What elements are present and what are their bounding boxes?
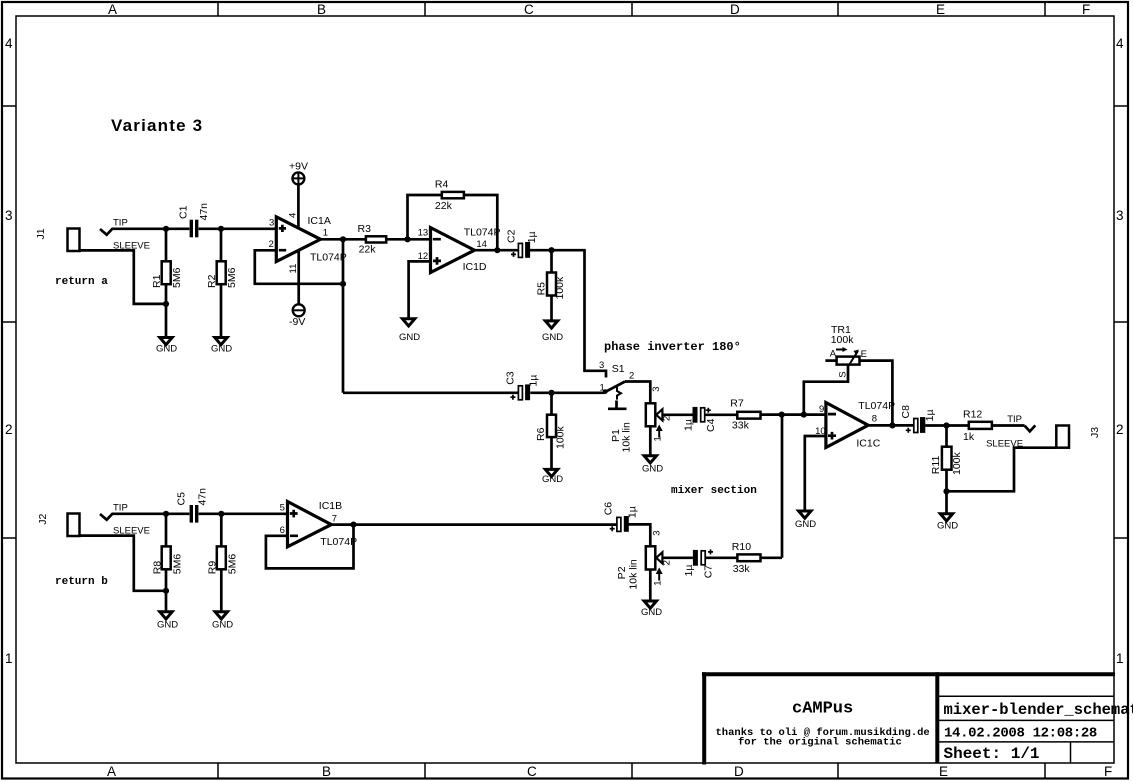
wire C3 to S1 pin1 <box>530 391 604 394</box>
junction sleeve R8 <box>163 588 169 594</box>
svg-text:A: A <box>107 764 116 779</box>
svg-text:33k: 33k <box>733 563 751 575</box>
title block text cAMPus <box>792 700 853 719</box>
svg-text:1: 1 <box>323 228 328 239</box>
svg-text:3: 3 <box>269 218 274 229</box>
svg-text:3: 3 <box>599 360 604 371</box>
svg-text:5M6: 5M6 <box>226 554 238 575</box>
svg-text:IC1A: IC1A <box>308 215 331 227</box>
svg-text:TIP: TIP <box>1007 414 1022 425</box>
op-amp IC1B <box>280 500 357 548</box>
connector J3 <box>986 414 1101 449</box>
wire R5 top <box>550 250 553 272</box>
svg-text:8: 8 <box>872 414 877 425</box>
note mixer section <box>671 485 757 497</box>
svg-text:7: 7 <box>332 513 337 524</box>
wire IC1D pin12 to gnd <box>409 261 431 318</box>
wire C5 to IC1B pin5 <box>199 512 288 515</box>
junction R11 sleeve <box>943 488 949 494</box>
wire P2 bottom to gnd <box>649 570 652 602</box>
title block sheet <box>944 745 1040 763</box>
title block credit line 2 <box>738 737 902 749</box>
svg-text:R12: R12 <box>963 409 982 421</box>
svg-text:GND: GND <box>212 620 233 631</box>
note return a <box>55 276 108 288</box>
svg-text:B: B <box>322 764 331 779</box>
junction sleeve R1 <box>163 301 169 307</box>
svg-text:mixer section: mixer section <box>671 485 757 497</box>
svg-text:100k: 100k <box>554 276 566 300</box>
svg-text:R5: R5 <box>535 282 547 296</box>
svg-text:R2: R2 <box>206 274 218 288</box>
svg-text:TL074P: TL074P <box>310 252 347 264</box>
svg-text:SLEEVE: SLEEVE <box>113 526 150 537</box>
svg-text:1µ: 1µ <box>924 409 936 421</box>
svg-text:E: E <box>936 2 945 17</box>
wire R7 to IC1C pin9 <box>761 413 826 416</box>
svg-text:TL074P: TL074P <box>320 536 357 548</box>
svg-text:GND: GND <box>937 521 958 532</box>
wire IC1B pin6 feedback <box>266 525 354 569</box>
capacitor C7 <box>683 549 715 578</box>
note return b <box>55 576 108 588</box>
switch S1 <box>599 360 634 409</box>
svg-text:IC1D: IC1D <box>463 261 487 273</box>
wire IC1C feedback to TR1 wiper <box>804 366 848 415</box>
junction J1 tip R1 <box>163 226 169 232</box>
svg-text:R3: R3 <box>358 223 372 235</box>
svg-text:C5: C5 <box>176 492 188 506</box>
ground P2 <box>641 601 662 618</box>
svg-text:14: 14 <box>476 239 487 250</box>
wire TR1 lead A stub <box>825 359 836 362</box>
supply +9V <box>289 161 308 185</box>
svg-text:C2: C2 <box>505 229 517 243</box>
svg-text:22k: 22k <box>359 244 377 256</box>
svg-text:C3: C3 <box>504 371 516 385</box>
op-amp IC1A <box>269 213 347 274</box>
svg-text:GND: GND <box>542 332 563 343</box>
svg-text:R10: R10 <box>732 541 751 553</box>
svg-text:TIP: TIP <box>113 503 128 514</box>
svg-text:10k lin: 10k lin <box>627 559 639 590</box>
wire R10 to mix node <box>761 556 783 559</box>
svg-text:R8: R8 <box>152 561 164 575</box>
capacitor C5 <box>176 488 209 523</box>
svg-text:1µ: 1µ <box>526 231 538 243</box>
svg-text:9: 9 <box>819 404 824 415</box>
wire C7 to R10 <box>705 556 737 559</box>
connector J2 <box>37 503 150 537</box>
title block document name <box>944 701 1133 719</box>
wire mix node down to R10 <box>781 415 784 558</box>
capacitor C1 <box>178 203 211 237</box>
svg-text:3: 3 <box>1116 208 1124 223</box>
svg-text:2: 2 <box>1116 422 1124 437</box>
resistor R2 <box>206 261 238 288</box>
svg-text:5: 5 <box>280 503 285 514</box>
svg-text:C8: C8 <box>900 405 912 419</box>
svg-text:1µ: 1µ <box>626 506 638 518</box>
svg-text:Variante 3: Variante 3 <box>111 116 203 135</box>
svg-text:B: B <box>317 2 326 17</box>
svg-text:R9: R9 <box>207 561 219 575</box>
svg-text:5M6: 5M6 <box>226 267 238 288</box>
wire R11 top <box>945 426 948 447</box>
svg-text:2: 2 <box>269 239 274 250</box>
svg-text:R11: R11 <box>930 456 942 475</box>
svg-text:C4: C4 <box>705 418 717 432</box>
ground R5 <box>542 321 563 343</box>
resistor R7 <box>730 398 760 432</box>
svg-text:F: F <box>1104 764 1112 779</box>
wire R12 to J3 tip <box>992 424 1025 427</box>
title block credit line 1 <box>716 727 930 739</box>
wire IC1B output to C6 <box>331 523 617 526</box>
svg-text:13: 13 <box>418 228 429 239</box>
svg-text:IC1C: IC1C <box>856 438 880 450</box>
wire pin11 to -9V <box>297 251 300 304</box>
resistor R8 <box>152 546 184 574</box>
wire R9 bottom <box>220 569 223 612</box>
svg-text:GND: GND <box>542 474 563 485</box>
svg-text:S1: S1 <box>612 363 625 375</box>
wire R11 node to gnd <box>945 491 948 513</box>
svg-text:GND: GND <box>795 519 816 530</box>
wire R5 bottom <box>550 296 553 321</box>
svg-text:C: C <box>527 764 537 779</box>
capacitor C8 <box>900 405 936 433</box>
svg-text:10: 10 <box>815 426 826 437</box>
resistor R11 <box>930 447 963 475</box>
svg-text:J1: J1 <box>35 228 47 239</box>
svg-text:D: D <box>734 764 744 779</box>
title block frame <box>702 672 1115 764</box>
svg-text:3: 3 <box>651 387 662 392</box>
svg-text:SLEEVE: SLEEVE <box>986 439 1023 450</box>
wire S1 pin2 to P1 pin3 <box>625 382 650 404</box>
resistor R3 <box>358 223 387 256</box>
svg-text:S: S <box>838 371 849 377</box>
svg-text:1: 1 <box>600 383 605 394</box>
svg-text:R6: R6 <box>535 427 547 441</box>
ground R6 <box>542 469 563 485</box>
frame column letters bottom <box>107 764 1112 779</box>
svg-text:A: A <box>108 2 117 17</box>
svg-text:1µ: 1µ <box>683 419 695 431</box>
svg-text:47n: 47n <box>196 488 208 506</box>
wire R6 top <box>550 393 553 415</box>
wire P2 wiper to C7 <box>662 556 693 559</box>
wire R4 feedback loop <box>408 195 498 250</box>
wire IC1D output to C2 <box>475 249 519 252</box>
svg-text:C1: C1 <box>178 205 190 219</box>
connector J1 <box>35 218 150 252</box>
junction IC1A out <box>340 236 346 242</box>
svg-text:100k: 100k <box>831 334 855 346</box>
svg-text:4: 4 <box>1116 36 1124 51</box>
wire J2 tip to C5 <box>100 514 189 520</box>
svg-text:GND: GND <box>641 607 662 618</box>
wire J3 sleeve <box>947 448 1057 492</box>
frame right band dividers <box>1114 106 1128 538</box>
title block date <box>944 725 1097 741</box>
wire J1 sleeve <box>80 250 167 304</box>
ground P1 <box>642 456 663 475</box>
svg-text:R7: R7 <box>730 398 744 410</box>
svg-text:phase inverter 180°: phase inverter 180° <box>604 340 741 354</box>
junction IC1A feedback <box>340 281 346 287</box>
svg-text:J2: J2 <box>37 514 49 525</box>
svg-text:11: 11 <box>288 264 299 274</box>
junction IC1D out R4 <box>494 247 500 253</box>
svg-text:return b: return b <box>55 576 108 588</box>
svg-text:1: 1 <box>653 581 664 586</box>
junction C5 R9 <box>218 511 224 517</box>
svg-text:5M6: 5M6 <box>171 267 183 288</box>
svg-text:4: 4 <box>5 36 13 51</box>
svg-text:Sheet: 1/1: Sheet: 1/1 <box>944 745 1040 763</box>
junction IC1C out TR1 <box>889 422 895 428</box>
ground R1 <box>156 338 177 355</box>
svg-text:1µ: 1µ <box>528 375 540 387</box>
frame column letters top <box>108 2 1090 17</box>
svg-text:14.02.2008 12:08:28: 14.02.2008 12:08:28 <box>944 725 1097 741</box>
svg-text:GND: GND <box>211 344 232 355</box>
trimmer TR1 <box>830 324 867 378</box>
junction feedback node <box>801 412 807 418</box>
wire J2 sleeve <box>80 536 167 591</box>
potentiometer P1 <box>610 387 673 453</box>
svg-text:1: 1 <box>5 651 13 666</box>
frame row numbers left <box>5 36 13 666</box>
wire node to S1 pin3 <box>552 250 607 377</box>
svg-text:4: 4 <box>288 213 299 218</box>
svg-text:100k: 100k <box>555 425 567 449</box>
svg-text:3: 3 <box>652 530 663 535</box>
svg-text:2: 2 <box>662 416 673 421</box>
svg-text:D: D <box>730 2 740 17</box>
wire P1 bottom to gnd <box>649 426 652 456</box>
wire R8 bottom to gnd <box>165 569 168 612</box>
junction J2 tip R8 <box>163 511 169 517</box>
svg-text:GND: GND <box>156 344 177 355</box>
svg-text:100k: 100k <box>951 451 963 475</box>
svg-text:-9V: -9V <box>289 316 305 328</box>
svg-text:cAMPus: cAMPus <box>792 700 853 719</box>
potentiometer P2 <box>616 530 673 589</box>
svg-text:R4: R4 <box>435 179 449 191</box>
ground IC1D <box>399 319 420 343</box>
ground R8 <box>157 612 178 631</box>
junction C8 R11 <box>943 422 949 428</box>
op-amp IC1C <box>815 400 895 450</box>
op-amp IC1D <box>418 227 501 274</box>
svg-text:TIP: TIP <box>113 218 128 229</box>
wire R6 bottom <box>550 437 553 469</box>
wire C2 to R5 node <box>530 249 552 252</box>
svg-text:GND: GND <box>157 620 178 631</box>
svg-text:C7: C7 <box>702 565 714 579</box>
frame row numbers right <box>1116 36 1124 666</box>
svg-text:2: 2 <box>629 371 634 382</box>
junction C1 R2 <box>218 226 224 232</box>
resistor R12 <box>963 409 992 444</box>
wire R8 top <box>165 514 168 547</box>
ground IC1C <box>795 511 816 530</box>
ground R11 <box>937 514 958 532</box>
svg-text:33k: 33k <box>732 420 750 432</box>
svg-text:C: C <box>524 2 534 17</box>
resistor R1 <box>151 261 183 288</box>
wire R11 bottom <box>945 470 948 492</box>
wire C4 to R7 <box>705 413 738 416</box>
svg-text:return a: return a <box>55 276 108 288</box>
junction C3 R6 <box>548 390 554 396</box>
wire C1 to IC1A pin3 <box>199 227 276 230</box>
wire IC1A output node <box>321 239 520 392</box>
frame left band dividers <box>2 106 16 538</box>
svg-text:1: 1 <box>653 436 664 441</box>
junction C2 R5 <box>548 247 554 253</box>
svg-text:J3: J3 <box>1089 427 1101 438</box>
svg-text:2: 2 <box>662 560 673 565</box>
ground R9 <box>212 612 233 631</box>
wire R2 top <box>220 229 223 261</box>
junction R3 R4 pin13 <box>404 236 410 242</box>
svg-text:22k: 22k <box>435 200 453 212</box>
resistor R6 <box>535 415 567 449</box>
resistor R10 <box>732 541 761 575</box>
svg-text:E: E <box>861 349 867 360</box>
capacitor C2 <box>505 229 538 257</box>
frame bottom band dividers <box>218 763 1045 778</box>
resistor R9 <box>207 546 239 574</box>
svg-text:10k lin: 10k lin <box>620 422 632 453</box>
wire R9 top <box>220 514 223 547</box>
svg-text:12: 12 <box>418 251 429 262</box>
svg-text:E: E <box>939 764 948 779</box>
wire IC1C pin10 to gnd <box>805 436 826 511</box>
ground R2 <box>211 338 232 355</box>
wire IC1C output to C8 <box>868 424 914 427</box>
title heading Variante 3 <box>111 116 203 135</box>
junction IC1B out <box>350 522 356 528</box>
svg-text:TL074P: TL074P <box>464 227 501 239</box>
svg-text:mixer-blender_schematic: mixer-blender_schematic <box>944 701 1133 719</box>
svg-text:GND: GND <box>399 332 420 343</box>
svg-text:F: F <box>1082 2 1090 17</box>
capacitor C4 <box>683 407 717 432</box>
svg-text:6: 6 <box>280 525 285 536</box>
svg-text:C6: C6 <box>602 502 614 516</box>
wire R3 to IC1D pin13 <box>386 238 430 241</box>
junction R7 mix node <box>779 412 785 418</box>
wire P1 wiper to C4 <box>662 413 692 416</box>
svg-text:SLEEVE: SLEEVE <box>113 240 150 251</box>
wire R1 bottom to gnd <box>165 284 168 337</box>
wire R2 bottom <box>220 284 223 337</box>
svg-text:A: A <box>830 348 837 359</box>
supply -9V <box>289 304 305 328</box>
wire IC1A pin2 feedback <box>255 250 343 283</box>
svg-text:GND: GND <box>642 464 663 475</box>
svg-text:for the original schematic: for the original schematic <box>738 737 902 749</box>
svg-text:2: 2 <box>5 422 13 437</box>
svg-text:R1: R1 <box>151 274 163 288</box>
wire R1 top <box>165 229 168 261</box>
wire C6 to P2 pin3 <box>628 524 650 546</box>
svg-text:+9V: +9V <box>289 161 308 173</box>
frame top band dividers <box>218 2 1045 16</box>
wire +9V to pin4 <box>297 185 300 230</box>
svg-text:IC1B: IC1B <box>319 500 342 512</box>
svg-text:1µ: 1µ <box>683 565 695 577</box>
svg-text:3: 3 <box>5 208 13 223</box>
svg-text:TL074P: TL074P <box>858 400 895 412</box>
wire TR1 lead E to output <box>860 361 893 426</box>
resistor R5 <box>535 273 566 300</box>
note phase inverter 180 <box>604 340 741 354</box>
capacitor C6 <box>602 502 638 532</box>
resistor R4 <box>435 179 464 213</box>
wire C8 to R12 <box>925 424 969 427</box>
svg-text:1: 1 <box>1116 651 1124 666</box>
svg-text:5M6: 5M6 <box>171 554 183 575</box>
svg-text:1k: 1k <box>963 431 975 443</box>
wire J1 tip to C1 <box>100 229 189 235</box>
capacitor C3 <box>504 371 539 400</box>
svg-text:47n: 47n <box>198 203 210 221</box>
